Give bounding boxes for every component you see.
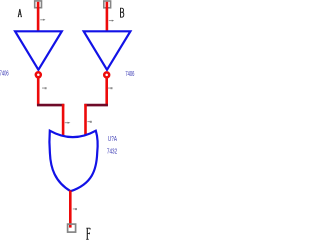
node A label — [18, 9, 22, 17]
svg-text:7406: 7406 — [125, 71, 134, 78]
svg-text:7432: 7432 — [107, 149, 118, 156]
wire B to inverter input — [106, 2, 109, 32]
inverter U2 bubble — [104, 72, 109, 77]
pin marker (OR input 1) — [65, 122, 71, 124]
wire A to inverter U? input — [37, 2, 40, 32]
port A — [35, 1, 42, 8]
port B — [104, 1, 111, 8]
node F label — [86, 228, 90, 239]
pin 4 marker (U2 output) — [108, 87, 113, 89]
pin 2 marker (U1 output) — [42, 87, 47, 89]
wire OR output to port F — [69, 191, 72, 228]
wire jog right (dark) — [84, 104, 108, 107]
node B label — [120, 8, 124, 17]
pin marker (OR output) — [73, 208, 77, 210]
svg-text:7406: 7406 — [0, 70, 9, 77]
pin 1 marker (inverter left input) — [40, 19, 45, 21]
inverter U1 (7406) triangle — [15, 31, 62, 70]
wire jog left (dark) — [37, 104, 64, 107]
OR gate U?A (7432) body — [49, 131, 97, 192]
port F — [68, 224, 76, 232]
inverter U1 bubble — [36, 72, 41, 77]
wire into OR gate input 2 — [84, 104, 87, 135]
wire U2 output down — [105, 78, 108, 106]
pin marker (OR input 2) — [87, 121, 91, 123]
svg-text:U?A: U?A — [108, 135, 118, 143]
wire U1 output down — [37, 78, 40, 106]
wire into OR gate input 1 — [62, 104, 65, 136]
inverter U2 (7406) triangle — [84, 31, 131, 70]
pin 3 marker (inverter right input) — [109, 20, 114, 22]
